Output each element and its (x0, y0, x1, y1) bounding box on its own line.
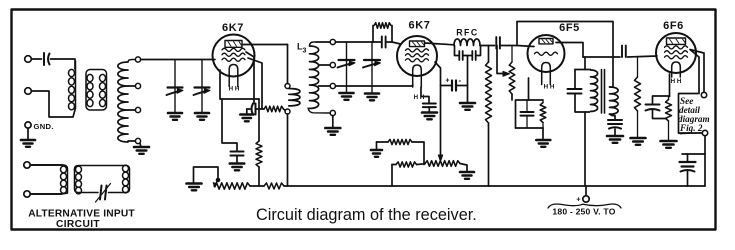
wire (585, 186, 587, 196)
wire (477, 46, 481, 56)
ground (460, 102, 475, 105)
wire (653, 110, 667, 119)
capacitor C11 (526, 100, 528, 112)
coil T1 primary (591, 70, 598, 111)
wire (287, 45, 289, 84)
wire screen stub (248, 58, 262, 109)
resistor R13 (264, 183, 284, 189)
coil L1a (input transformer primary) (75, 61, 77, 107)
capacitor C7 (458, 51, 460, 60)
resistor R10 (grid leak) (637, 57, 639, 77)
ground (661, 140, 677, 143)
transformer core (601, 70, 603, 114)
wire (501, 45, 517, 47)
wire heater frame V1 (220, 70, 259, 99)
wire (246, 109, 248, 114)
node circle (285, 109, 290, 114)
wire (528, 78, 530, 100)
coil L3 (tuned winding) (310, 46, 319, 108)
svg-text:6F6: 6F6 (663, 20, 684, 32)
potentiometer R6 (425, 161, 460, 167)
resistor R3 (grid stopper) (372, 26, 374, 43)
variable capacitor VC1 (tuning) (174, 60, 176, 88)
wire (258, 167, 260, 186)
wire tap stub (128, 140, 135, 142)
tap node circle (135, 83, 140, 88)
wire (387, 41, 392, 43)
wire (614, 129, 616, 136)
wire (376, 142, 378, 150)
coil T2 secondary loop (75, 166, 130, 193)
wire (542, 128, 544, 140)
tube V3 6F5 (528, 35, 565, 72)
svg-text:H H: H H (671, 78, 682, 85)
resistor R2 (bias) (256, 141, 262, 167)
wire (653, 96, 670, 104)
ground (460, 171, 474, 174)
junction dot (216, 178, 220, 182)
wire grid line to V1 (141, 59, 215, 61)
wire plate output (690, 50, 704, 93)
capacitor C4 (grid) (252, 104, 254, 115)
wire detail box (679, 50, 700, 133)
wire (488, 46, 490, 63)
svg-text:Circuit diagram of the receive: Circuit diagram of the receiver. (256, 206, 477, 224)
ground (422, 111, 437, 114)
terminal (speaker +) (701, 92, 706, 97)
svg-text:GND.: GND. (34, 122, 54, 131)
coil RFC (454, 39, 480, 46)
wire (417, 163, 426, 166)
capacitor C14 (608, 119, 622, 121)
ground (L3) (325, 127, 340, 130)
svg-text:6F5: 6F5 (559, 22, 580, 34)
capacitor C1 (aerial series cap) (43, 53, 45, 65)
wire (584, 57, 586, 70)
wire anode V1 (243, 44, 288, 46)
ground (240, 113, 253, 116)
wire (412, 84, 414, 86)
wire (332, 116, 334, 128)
svg-text:Fig. 2: Fig. 2 (679, 123, 703, 133)
wire anode V3 (556, 43, 583, 58)
svg-text:H H: H H (414, 94, 425, 101)
coil L1b (input transformer secondary) (86, 70, 107, 111)
resistor R9 (542, 100, 544, 103)
variable capacitor VC4 (371, 42, 373, 60)
arrow (wiper) (503, 71, 510, 76)
svg-text:+: + (576, 195, 581, 204)
wire (373, 41, 381, 43)
coil L3a (coupling) (289, 89, 300, 106)
wire anode loop (517, 22, 613, 88)
capacitor C15 (646, 104, 660, 106)
wire (30, 193, 62, 195)
resistor R7 (screen dropper) (486, 62, 492, 123)
tap node circle (330, 39, 335, 44)
wire tap stub (319, 85, 331, 87)
svg-text:6K7: 6K7 (222, 22, 244, 34)
wire wiper (497, 46, 504, 74)
capacitor C13 (tank) (568, 88, 582, 90)
arrow (wiper) (213, 183, 216, 188)
capacitor C5 (381, 37, 383, 48)
svg-text:6K7: 6K7 (409, 20, 431, 32)
wire anode V2 (425, 43, 454, 45)
arrow (AVC wiper) (438, 155, 442, 162)
capacitor C12 (coupling) (621, 46, 623, 58)
node circle (285, 84, 290, 89)
wire (687, 154, 689, 162)
wire (247, 108, 250, 110)
svg-text:RFC: RFC (456, 28, 479, 38)
svg-text:ALTERNATIVE INPUT: ALTERNATIVE INPUT (28, 209, 135, 220)
ground (230, 162, 245, 165)
terminal T4 (24, 191, 30, 197)
wire (460, 164, 467, 172)
wire (31, 91, 75, 117)
wire (139, 143, 142, 146)
tap node circle (135, 138, 140, 143)
wire (456, 85, 468, 87)
wire AVC line (335, 85, 412, 87)
wire (687, 172, 689, 187)
terminal T3 (24, 162, 30, 168)
svg-text:H H: H H (544, 84, 555, 91)
wire (194, 167, 219, 183)
capacitor C6 (heater bypass) (421, 87, 429, 103)
capacitor C9 (coupling) (495, 37, 497, 49)
wire (464, 55, 471, 57)
wire tap stub (319, 64, 331, 66)
potentiometer R12 (214, 183, 250, 189)
resistor R5 (396, 162, 417, 167)
wire (27, 128, 29, 139)
resistor R1 (264, 106, 284, 112)
tap node circle (135, 107, 140, 112)
wire (480, 45, 495, 47)
capacitor C8 (471, 51, 473, 60)
tube V4 6F6 (656, 33, 696, 73)
wire (258, 99, 260, 141)
terminal T1 (aerial input) (25, 56, 32, 63)
wire (682, 153, 705, 155)
wire (704, 136, 706, 186)
tube V2 6K7 (397, 36, 437, 76)
wire bus (HT- line) (284, 185, 705, 187)
wire (287, 114, 289, 186)
ground (607, 135, 623, 138)
svg-text:H H: H H (229, 86, 240, 93)
tube V1 6K7 (213, 35, 255, 77)
wire (335, 41, 373, 43)
ground (GND terminal) (21, 139, 35, 142)
coil T1 secondary (610, 87, 619, 114)
variable capacitor VC3 (346, 42, 348, 60)
tap node circle (135, 57, 140, 62)
ground (631, 137, 646, 140)
wire grid (517, 46, 534, 47)
wire (467, 56, 469, 103)
ground (187, 182, 202, 185)
wire (610, 114, 616, 120)
capacitor C16 (output) (680, 161, 696, 163)
wire (392, 42, 401, 44)
svg-text:-: - (458, 76, 461, 85)
coil L2 (tapped aerial coil) (118, 62, 128, 142)
capacitor C3 (cathode bypass) (231, 151, 244, 153)
wire (441, 85, 451, 87)
wire (435, 62, 441, 156)
tap node circle (330, 62, 335, 67)
terminal HT+ (583, 196, 589, 202)
wire B+ feed (584, 112, 586, 186)
svg-text:+: + (445, 78, 449, 85)
terminal GND (25, 122, 31, 128)
terminal T2 (25, 88, 32, 95)
wire (236, 156, 238, 163)
potentiometer R8 (511, 46, 513, 63)
ground (aerial coil) (134, 146, 149, 149)
wire cathode (669, 74, 671, 97)
terminal (speaker -) (702, 130, 707, 135)
wire (516, 100, 544, 128)
resistor R11 (cathode) (668, 97, 670, 100)
tap node circle (330, 83, 335, 88)
svg-text:180 - 250 V. TO: 180 - 250 V. TO (552, 207, 615, 217)
wire (412, 142, 424, 165)
wire (392, 164, 396, 166)
wire (583, 56, 620, 58)
wire (316, 41, 330, 43)
wire (679, 132, 703, 134)
wire (488, 123, 490, 186)
transformer T1 primary box (574, 70, 576, 89)
coil T2 primary (30, 164, 63, 166)
ground (371, 149, 382, 152)
ground (536, 139, 550, 142)
brace (548, 204, 583, 208)
wire (377, 141, 389, 143)
wire (30, 164, 62, 166)
wire (455, 46, 459, 56)
variable capacitor VC2 (tuning) (201, 60, 203, 88)
wire bus (250, 185, 264, 187)
wire (284, 109, 286, 111)
wire (256, 108, 265, 110)
resistor R4 (388, 139, 412, 144)
svg-text:3: 3 (303, 48, 307, 55)
svg-text:CIRCUIT: CIRCUIT (56, 219, 100, 230)
wire grid stub (246, 52, 254, 104)
wire (222, 99, 237, 151)
wire (51, 59, 76, 69)
wire (31, 58, 41, 60)
tap node circle (330, 110, 335, 115)
wire tap stub (128, 109, 135, 111)
capacitor C17 (series trimmer) (100, 186, 102, 200)
wire (308, 108, 330, 113)
wire tap stub (128, 85, 135, 87)
